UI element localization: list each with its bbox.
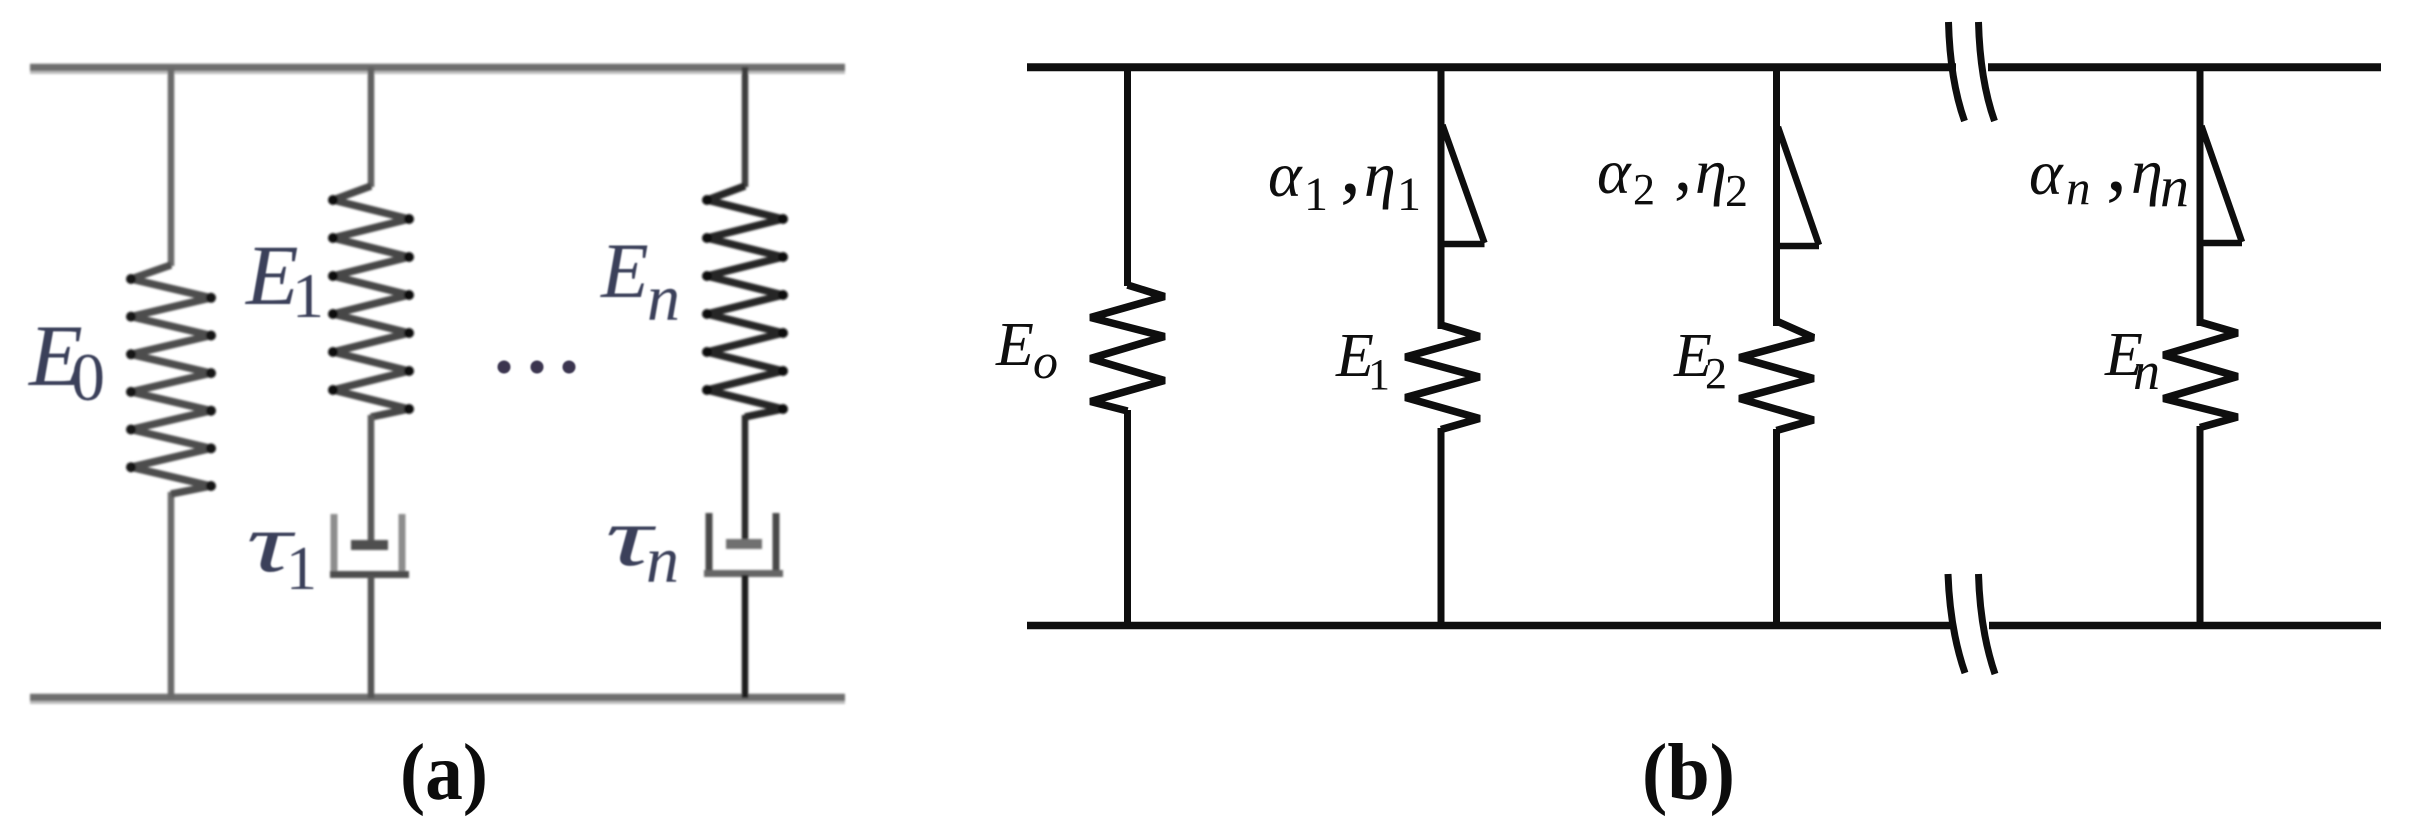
dashpot tau1 cup xyxy=(331,514,338,571)
wire branch1 lower xyxy=(168,492,175,698)
svg-text:1: 1 xyxy=(1397,168,1421,221)
branch 3 wire lower xyxy=(1773,429,1780,629)
svg-text:α: α xyxy=(2029,137,2064,208)
wire branch1 upper xyxy=(168,67,175,266)
svg-text:(b): (b) xyxy=(1642,727,1735,817)
label E_o (b) xyxy=(995,311,1058,389)
svg-text:(a): (a) xyxy=(400,727,488,817)
label alpha1 eta1 xyxy=(1268,118,1421,221)
label E2 (b) xyxy=(1673,322,1727,398)
svg-text:,: , xyxy=(2106,116,2127,209)
branch E_o wire upper xyxy=(1124,64,1131,286)
svg-text:1: 1 xyxy=(1368,350,1390,399)
svg-text:1: 1 xyxy=(1304,168,1328,221)
label En (a) xyxy=(600,227,680,335)
label alpha_n eta_n xyxy=(2029,116,2189,219)
spring E0 xyxy=(131,265,211,494)
springpot alpha2 triangle xyxy=(1778,127,1819,245)
svg-text:2: 2 xyxy=(1725,165,1748,216)
svg-text:1: 1 xyxy=(292,260,324,331)
wire branch3 spring-to-dashpot (piston rod) xyxy=(742,415,749,545)
spring En (a) xyxy=(707,186,783,417)
svg-text:2: 2 xyxy=(1633,165,1655,214)
svg-text:E: E xyxy=(600,227,649,314)
wire branch2 upper xyxy=(368,67,375,187)
spring E1 xyxy=(333,186,409,417)
dashpot tau1 piston plate xyxy=(351,540,388,550)
spring E2 (b) xyxy=(1740,321,1814,431)
svg-text:2: 2 xyxy=(1705,349,1727,398)
svg-text:η: η xyxy=(1364,139,1396,210)
dashpot tau_n cup xyxy=(706,513,713,570)
svg-text:n: n xyxy=(2133,341,2160,401)
svg-text:n: n xyxy=(647,262,680,335)
label tau_n (a) xyxy=(606,490,680,597)
label E0 (a) xyxy=(27,308,105,415)
branch 2 wire xyxy=(1438,64,1445,329)
top rail (b) left segment xyxy=(1027,63,1956,71)
bottom rail (b) right segment xyxy=(1989,622,2381,630)
svg-text:E: E xyxy=(244,227,299,323)
ellipsis dots (a) xyxy=(498,361,576,374)
svg-text:n: n xyxy=(646,524,679,597)
wire branch3 upper xyxy=(742,67,749,187)
svg-text:0: 0 xyxy=(71,339,105,415)
branch 3 wire xyxy=(1773,64,1780,326)
svg-text:α: α xyxy=(1597,136,1632,207)
svg-text:η: η xyxy=(2131,136,2163,207)
spring E1 (b) xyxy=(1406,325,1480,430)
branch 2 wire lower xyxy=(1438,428,1445,629)
branch 4 wire lower xyxy=(2197,426,2204,629)
bottom rail (b) left segment xyxy=(1027,622,1956,630)
top rail (b) right segment xyxy=(1988,63,2381,71)
label tau1 (a) xyxy=(247,497,318,603)
dashpot tau_n piston plate xyxy=(726,539,762,549)
top rail (a) xyxy=(30,64,845,72)
svg-text:o: o xyxy=(1033,333,1058,389)
svg-text:n: n xyxy=(2066,160,2091,215)
wire branch2 spring-to-dashpot (piston rod) xyxy=(368,415,375,545)
wire branch3 lower xyxy=(742,575,749,698)
label E1 (a) xyxy=(244,227,324,331)
svg-text:n: n xyxy=(2160,154,2189,219)
svg-text:,: , xyxy=(1340,118,1361,211)
label E1 (b) xyxy=(1335,322,1390,399)
springpot alpha1 triangle xyxy=(1443,125,1485,243)
springpot alpha_n triangle xyxy=(2202,126,2243,242)
label alpha2 eta2 xyxy=(1597,126,1748,216)
top rail break slashes xyxy=(1949,22,1965,121)
svg-text:1: 1 xyxy=(286,535,317,603)
svg-text:η: η xyxy=(1695,136,1727,207)
label En (b) xyxy=(2104,321,2160,401)
branch E_o wire lower xyxy=(1124,410,1131,629)
branch 4 wire xyxy=(2197,64,2204,326)
spring E_o (b) xyxy=(1091,285,1165,411)
svg-text:α: α xyxy=(1268,139,1303,210)
wire branch2 lower xyxy=(368,576,375,698)
bottom rail break slashes xyxy=(1948,574,1965,673)
bottom rail (a) xyxy=(30,694,845,702)
svg-text:E: E xyxy=(995,311,1034,379)
spring En (b) xyxy=(2164,322,2238,428)
svg-text:,: , xyxy=(1674,126,1692,206)
